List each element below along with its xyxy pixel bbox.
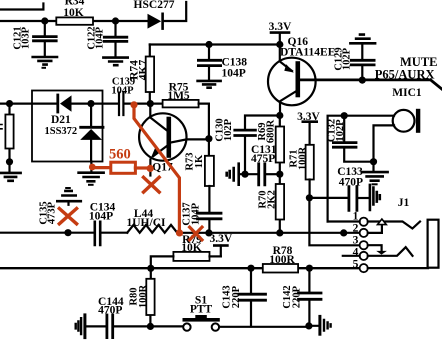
node junction Q16 emitter — [276, 41, 283, 48]
wire mid rail — [0, 102, 163, 104]
wire PTT to grounds — [219, 326, 319, 327]
diode D21a — [56, 95, 59, 112]
wire top-left stub — [1, 4, 43, 10]
X mark delete Q17 emitter path — [144, 177, 160, 192]
capacitor C142 — [308, 268, 310, 291]
switch arrow pin2 to pin1 (open) — [368, 225, 382, 233]
ground above C129 (inverted) — [350, 35, 375, 44]
wire main PTT rail — [0, 267, 360, 269]
svg-text:104P: 104P — [222, 68, 246, 80]
wire C133 rail — [309, 197, 347, 199]
wire audio rail (pin2 line) — [0, 232, 127, 234]
svg-text:470P: 470P — [339, 177, 363, 189]
resistor R70 — [279, 174, 281, 233]
resistor R74 — [149, 45, 151, 104]
resistor R75 — [163, 100, 199, 108]
svg-text:104P: 104P — [190, 202, 201, 225]
svg-text:103P: 103P — [21, 26, 32, 49]
ground below D21 box — [90, 162, 92, 172]
svg-text:4K7: 4K7 — [138, 60, 150, 81]
X mark delete C135 — [59, 209, 76, 224]
diode D21b — [90, 104, 92, 126]
wire R75 to collector node — [199, 104, 209, 139]
node junction R69 bottom — [276, 171, 283, 178]
svg-text:475P: 475P — [251, 153, 275, 165]
capacitor C138 — [208, 45, 210, 59]
wire R71 node down to jack pin3 — [309, 198, 359, 246]
svg-text:10K: 10K — [63, 7, 84, 19]
wire left edge ticks — [0, 125, 2, 129]
svg-text:P65/AURX: P65/AURX — [375, 67, 435, 81]
svg-text:2K2: 2K2 — [267, 190, 278, 209]
svg-text:2: 2 — [353, 223, 359, 235]
resistor R34 — [56, 17, 93, 24]
node junction R80 bottom — [147, 323, 154, 330]
ground below C138 — [198, 81, 221, 88]
svg-text:473P: 473P — [47, 201, 58, 224]
node junction left resistor top — [6, 100, 13, 107]
node junction R75/R73/collector — [205, 135, 212, 142]
node junction C142 bottom — [305, 322, 312, 329]
node junction C138 — [205, 41, 212, 48]
node junction D21 — [87, 100, 94, 107]
node junction mic ground — [370, 158, 377, 165]
ground left of C144 — [83, 315, 86, 338]
capacitor C130 — [235, 130, 256, 135]
node junction C142 top — [306, 265, 313, 272]
svg-text:1K: 1K — [194, 154, 205, 168]
ground below mic — [372, 162, 374, 171]
switch arrow pin3 to pin4 (solid) — [368, 245, 382, 251]
node junction C137 bottom — [205, 229, 212, 236]
wire Q16 base / MUTE — [300, 80, 442, 89]
jack body J1 — [428, 220, 439, 268]
capacitor C129 — [361, 45, 363, 59]
ground below left resistor — [8, 162, 10, 172]
capacitor C137 — [208, 186, 210, 212]
capacitor C133 — [349, 187, 357, 211]
svg-text:4: 4 — [353, 247, 359, 259]
wire mic bottom lead — [374, 125, 395, 161]
svg-text:680R: 680R — [266, 119, 277, 143]
ground right of C142 — [318, 316, 321, 334]
node junction C122 — [112, 17, 119, 24]
svg-text:102P: 102P — [335, 119, 346, 142]
svg-text:470P: 470P — [98, 305, 122, 317]
svg-text:PTT: PTT — [190, 304, 213, 316]
svg-text:102P: 102P — [223, 118, 234, 141]
svg-text:J1: J1 — [398, 197, 410, 209]
box D21 module — [32, 91, 103, 162]
svg-text:104P: 104P — [95, 26, 106, 49]
node junction Q16 collector — [276, 112, 283, 119]
resistor R73 — [208, 139, 210, 156]
wire 3.3V rail to Q16 — [150, 43, 280, 45]
capacitor C132 — [343, 116, 345, 141]
ground left of C131 — [227, 164, 239, 185]
svg-text:220P: 220P — [231, 285, 242, 308]
resistor R69 — [279, 116, 281, 175]
wire red jumper C139 to L44 — [130, 101, 137, 108]
inductor L44 — [127, 225, 177, 233]
node junction C130 bottom — [241, 171, 248, 178]
capacitor C134 — [95, 222, 100, 245]
node junction C129 — [359, 77, 366, 84]
wire top rail — [0, 2, 186, 21]
svg-text:104P: 104P — [89, 211, 113, 223]
node junction R70 bottom — [276, 229, 283, 236]
ground right of C133 — [370, 185, 380, 210]
wire red from D21 ground — [89, 164, 96, 171]
svg-text:1SS372: 1SS372 — [45, 126, 78, 137]
svg-text:220P: 220P — [292, 285, 303, 308]
ground above C135 (inverted) — [66, 187, 70, 189]
wire ground to C131 — [240, 173, 257, 175]
ground below C121 — [33, 57, 57, 65]
svg-text:100R: 100R — [298, 146, 309, 170]
ground below C122 — [103, 58, 127, 66]
X mark delete wire at C137 — [190, 227, 202, 240]
svg-text:560: 560 — [109, 147, 131, 163]
wire collector node to C130 — [245, 116, 280, 129]
svg-text:MIC1: MIC1 — [392, 87, 422, 99]
node junction R80 top — [147, 265, 154, 272]
resistor left (unlabeled) — [8, 104, 10, 162]
capacitor C121 — [44, 21, 46, 35]
node junction C132 top — [341, 112, 348, 119]
resistor R80 — [149, 268, 152, 326]
capacitor C144 — [87, 325, 105, 327]
svg-text:102P: 102P — [342, 47, 353, 70]
svg-text:1M5: 1M5 — [167, 90, 190, 102]
node junction top rail / C121 — [41, 17, 48, 24]
resistor R71 — [306, 145, 314, 180]
capacitor C122 — [114, 21, 116, 36]
svg-text:3: 3 — [353, 234, 359, 246]
transistor Q17 — [139, 113, 186, 160]
node junction C143 top — [247, 265, 254, 272]
node junction C135 — [64, 229, 71, 236]
node junction R71 bottom — [306, 194, 313, 201]
resistor R78 — [263, 264, 298, 273]
capacitor C143 — [250, 268, 252, 292]
svg-text:DTA114EE: DTA114EE — [280, 46, 336, 58]
node junction pin2 wire — [340, 229, 347, 236]
svg-text:3.3V: 3.3V — [209, 233, 232, 245]
svg-text:5: 5 — [353, 258, 359, 270]
svg-text:HSC277: HSC277 — [134, 0, 175, 11]
capacitor C131 — [259, 164, 265, 185]
svg-text:1UH/CI: 1UH/CI — [127, 217, 167, 229]
svg-text:100R: 100R — [138, 284, 149, 308]
wire mic node — [328, 116, 394, 222]
microphone MIC1 — [393, 110, 415, 132]
node junction left resistor bottom — [6, 158, 13, 165]
svg-text:100R: 100R — [269, 254, 295, 266]
node junction R74 bottom — [147, 100, 154, 107]
svg-text:D21: D21 — [51, 114, 71, 126]
